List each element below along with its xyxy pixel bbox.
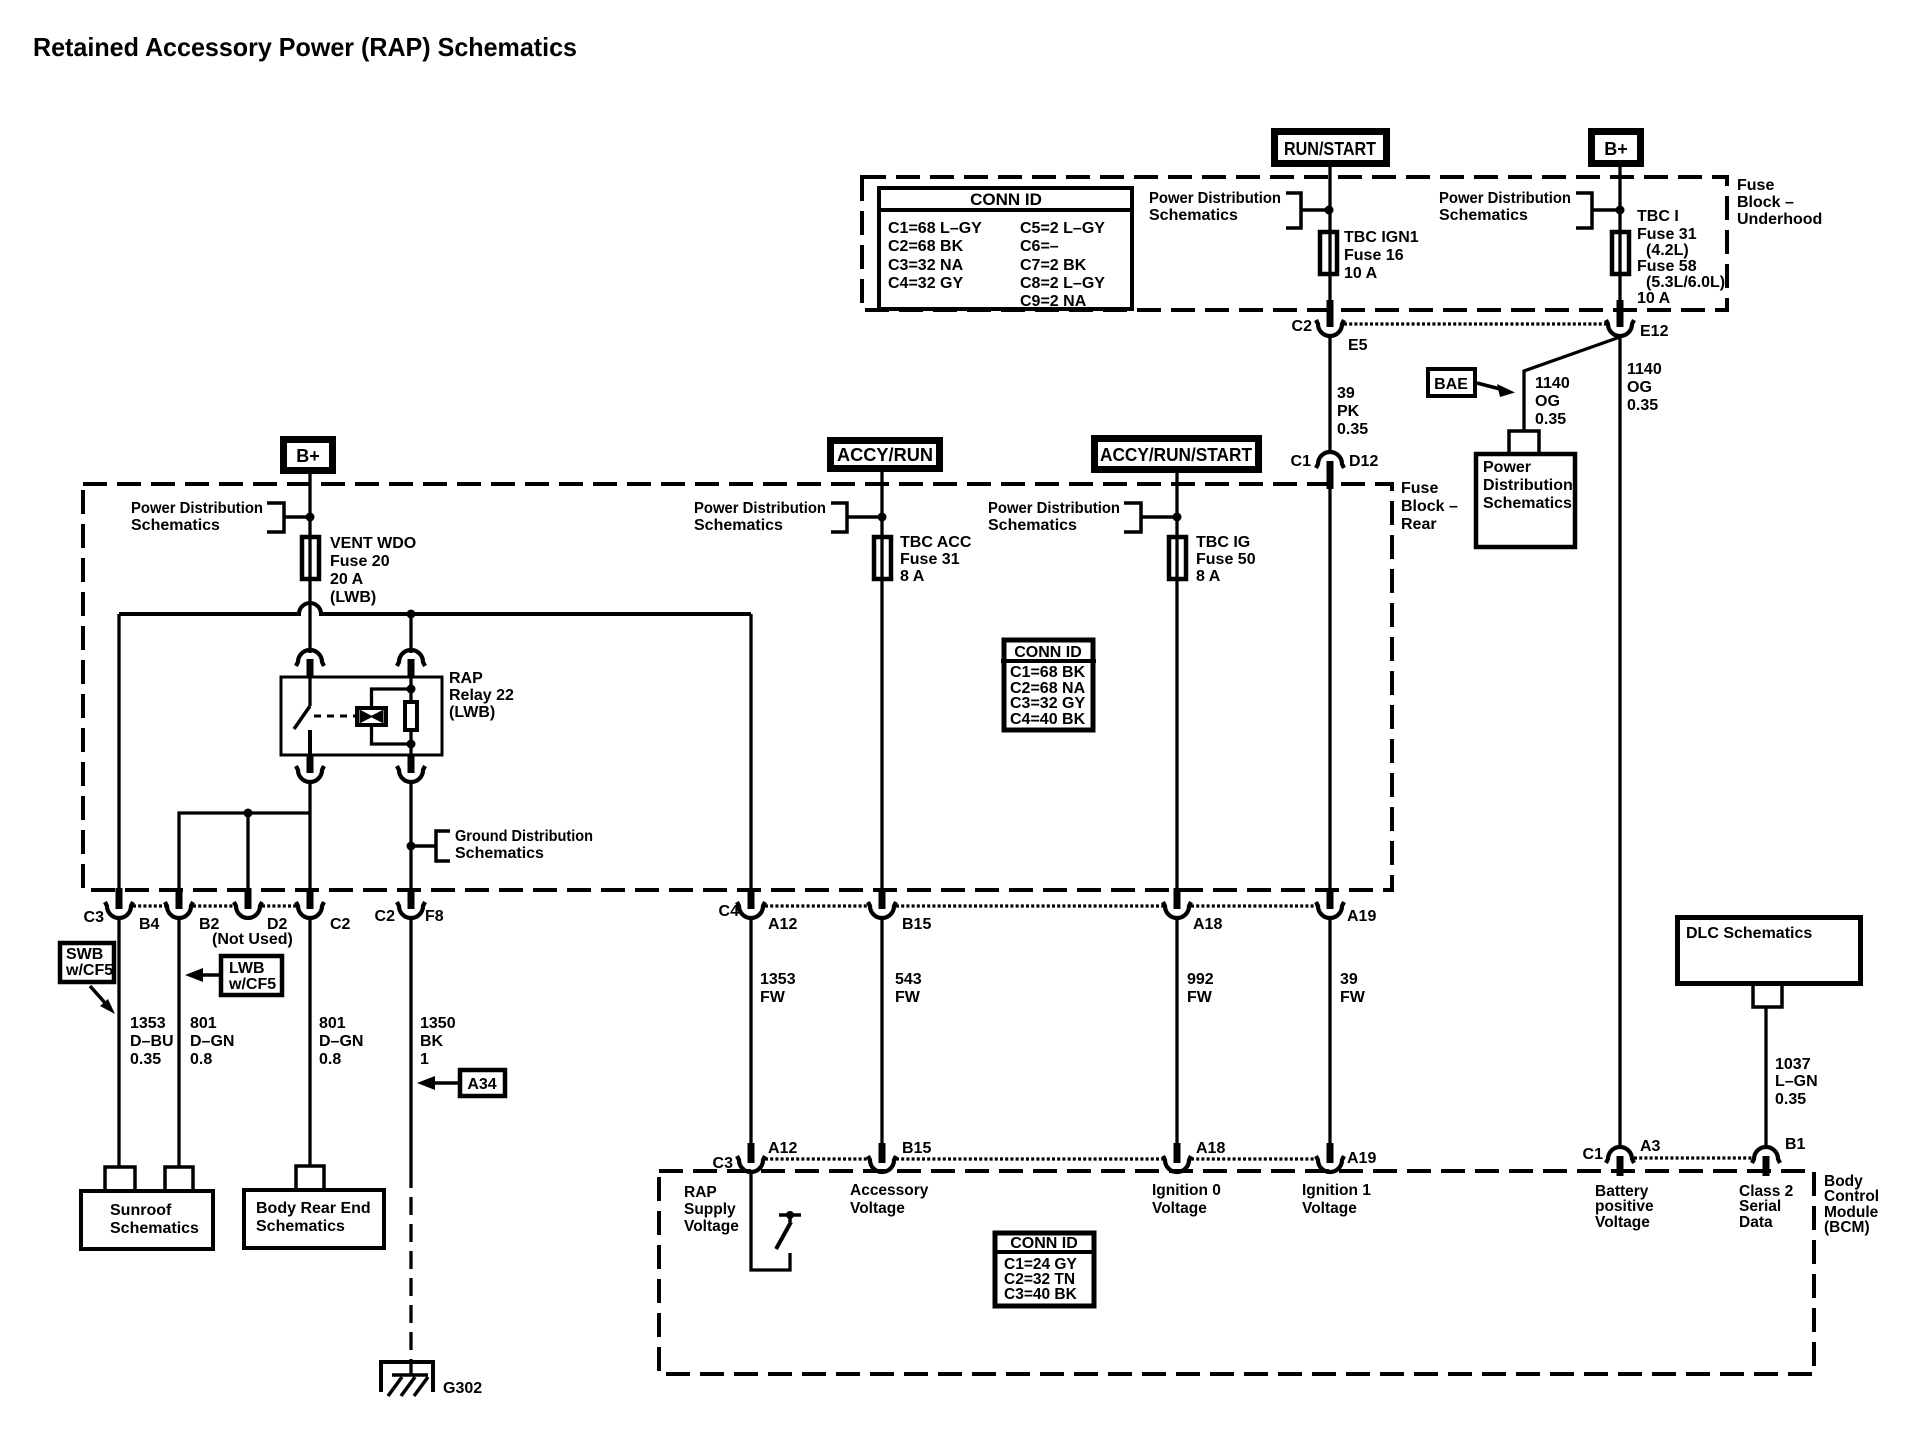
wire A18 down to BCM [1175,917,1178,1144]
node Class 2 Serial Data [1739,1183,1793,1231]
wire label 39 FW [1340,971,1366,1006]
svg-text:(BCM): (BCM) [1824,1219,1870,1236]
wire label 801 D-GN 0.8 (B2) [190,1015,234,1068]
connector A19 (BCM) [1316,1143,1376,1172]
svg-text:Fuse: Fuse [1737,177,1774,194]
svg-text:(4.2L): (4.2L) [1646,242,1689,259]
wire C2/F8 down (1350 BK) [409,917,412,1170]
wire E5 to C1 (39 PK) [1328,335,1331,453]
svg-text:Schematics: Schematics [110,1220,199,1237]
wire B+ down [308,474,311,537]
svg-text:Ignition 0: Ignition 0 [1152,1182,1221,1199]
svg-text:0.35: 0.35 [130,1051,161,1068]
relay actuation dashed link [314,715,355,718]
node Battery positive Voltage [1595,1183,1654,1231]
terminal B+ (underhood) [1592,132,1641,164]
connector C2/F8 [375,888,444,925]
dashed wire to G302 [409,1170,412,1362]
wire label 1140 OG 0.35 (right) [1627,361,1662,414]
terminal RUN/START [1275,132,1387,164]
fuse TBC I Fuse 31/58 [1612,208,1725,307]
svg-text:Schematics: Schematics [256,1218,345,1235]
svg-text:1140: 1140 [1627,361,1662,378]
CONN ID table (Fuse Block - Rear) [1001,640,1096,730]
svg-text:Schematics: Schematics [1149,207,1238,224]
wire C3/B4 down to Sunroof [117,917,120,1167]
connector B1 (BCM class 2) [1752,1136,1806,1176]
junction dot bus/relay coil [407,610,416,619]
svg-text:C2: C2 [330,916,351,933]
svg-text:Fuse: Fuse [1401,480,1438,497]
wire D12 down to A19 [1328,489,1331,891]
svg-text:C7=2 BK: C7=2 BK [1020,257,1087,274]
svg-text:Voltage: Voltage [1595,1214,1650,1231]
svg-text:Fuse 31: Fuse 31 [1637,226,1697,243]
wire label 992 FW [1187,971,1214,1006]
svg-text:RAP: RAP [449,670,483,687]
svg-text:Block –: Block – [1737,194,1794,211]
svg-text:A3: A3 [1640,1138,1661,1155]
svg-text:C2: C2 [1292,318,1313,335]
svg-text:C1=68 BK: C1=68 BK [1010,664,1086,681]
svg-text:TBC IGN1: TBC IGN1 [1344,229,1419,246]
svg-text:A19: A19 [1347,908,1376,925]
wire bus to relay coil pin [409,614,412,653]
svg-text:SWB: SWB [66,946,103,963]
wire B+ down [1618,165,1621,232]
relay pin connector (coil, bottom) [408,755,415,773]
svg-text:1350: 1350 [420,1015,456,1032]
wire label 1353 FW [760,971,796,1006]
fuse VENT WDO Fuse 20 [302,535,416,606]
svg-text:FW: FW [1187,989,1213,1006]
svg-text:8 A: 8 A [1196,568,1221,585]
Body Rear End Schematics box [244,1190,384,1248]
dotted connector line B15-A18 (BCM) [896,1157,1163,1160]
svg-text:D12: D12 [1349,453,1378,470]
node Ignition 0 Voltage [1152,1182,1221,1217]
connector C3/A12 (BCM) [713,1140,798,1172]
svg-text:ACCY/RUN: ACCY/RUN [837,445,933,465]
svg-text:PK: PK [1337,403,1360,420]
Power Distribution Schematics callout (B+ rear) [131,500,315,534]
svg-text:BAE: BAE [1434,376,1468,393]
dotted connector line A18-A19 [1191,904,1316,907]
svg-text:0.35: 0.35 [1535,411,1566,428]
relay pin connector (switch, bottom) [307,755,314,773]
connector D2 (Not Used) [212,888,293,948]
Sunroof Schematics box [81,1191,213,1249]
svg-text:FW: FW [1340,989,1366,1006]
svg-text:Voltage: Voltage [850,1200,905,1217]
svg-text:C3=40 BK: C3=40 BK [1004,1286,1078,1303]
svg-text:CONN ID: CONN ID [1010,1235,1078,1252]
svg-text:Rear: Rear [1401,516,1437,533]
wire ACCY/RUN down [880,468,883,537]
relay pin connector (coil, top) [397,650,425,666]
wire A19 down to BCM [1328,917,1331,1144]
svg-text:801: 801 [319,1015,346,1032]
svg-text:LWB: LWB [229,960,265,977]
RAP switch inside BCM [751,1172,801,1270]
svg-text:Power Distribution: Power Distribution [988,500,1120,517]
svg-text:Schematics: Schematics [988,517,1077,534]
svg-text:D–GN: D–GN [319,1033,363,1050]
svg-text:ACCY/RUN/START: ACCY/RUN/START [1100,445,1252,465]
svg-text:Body Rear End: Body Rear End [256,1200,371,1217]
svg-text:10 A: 10 A [1637,290,1671,307]
svg-text:B+: B+ [296,446,320,466]
svg-text:Voltage: Voltage [684,1218,739,1235]
relay pin connector (switch, top) [296,650,324,666]
svg-text:Block –: Block – [1401,498,1458,515]
svg-text:20 A: 20 A [330,571,364,588]
wire bus right down to C4/A12 [749,614,752,891]
svg-text:0.8: 0.8 [319,1051,341,1068]
svg-text:C3: C3 [84,909,105,926]
connector B15 [868,888,931,933]
svg-text:C1: C1 [1291,453,1312,470]
dotted connector line B4-B2 [133,904,165,907]
branch link to B2/D2 [179,813,310,891]
component tab (Sunroof pin 1) [105,1167,135,1189]
svg-text:A18: A18 [1196,1140,1225,1157]
wire DLC down to B1 [1764,1007,1767,1148]
Power Distribution Schematics callout (B+ underhood) [1439,190,1625,228]
svg-text:1353: 1353 [130,1015,166,1032]
SWB w/CF5 callout [60,943,115,1014]
wire label 543 FW [895,971,922,1006]
svg-text:C5=2 L–GY: C5=2 L–GY [1020,220,1105,237]
wire A12 down to BCM [749,917,752,1144]
svg-text:D–GN: D–GN [190,1033,234,1050]
svg-text:Underhood: Underhood [1737,211,1822,228]
svg-text:Power Distribution: Power Distribution [1439,190,1571,207]
svg-text:Fuse 31: Fuse 31 [900,551,960,568]
terminal ACCY/RUN/START [1095,439,1259,470]
connector B15 (BCM) [868,1140,931,1172]
svg-text:0.35: 0.35 [1627,397,1658,414]
wire VENT WDO down through hop to relay [308,581,311,653]
dotted connector line B2-D2 [193,904,234,907]
svg-text:C1=68 L–GY: C1=68 L–GY [888,220,982,237]
wire RUN/START down [1328,165,1331,232]
svg-text:DLC Schematics: DLC Schematics [1686,925,1812,942]
connector C3/B4 [84,888,160,933]
relay box [281,677,442,755]
relay resistor [409,677,412,702]
component tab to Power Distribution Schematics box [1509,431,1539,452]
svg-text:BK: BK [420,1033,444,1050]
svg-text:992: 992 [1187,971,1214,988]
bus line with hop over VENT WDO wire [119,603,751,614]
dotted connector line A18-A19 (BCM) [1191,1157,1316,1160]
component tab (DLC) [1753,986,1782,1007]
Ground Distribution Schematics callout [407,828,594,862]
svg-text:A18: A18 [1193,916,1222,933]
connector A18 (BCM) [1163,1140,1225,1172]
label Body Control Module (BCM) [1824,1173,1879,1236]
dotted connector line B15-A18 [896,904,1163,907]
svg-text:Sunroof: Sunroof [110,1202,172,1219]
component tab (Body Rear End) [296,1166,324,1188]
wire label 1037 L-GN 0.35 [1775,1056,1818,1108]
wire D2 [246,813,249,891]
svg-text:1037: 1037 [1775,1056,1811,1073]
svg-text:B15: B15 [902,916,931,933]
fuse TBC IG Fuse 50 [1169,534,1256,585]
svg-text:Retained Accessory Power (RAP): Retained Accessory Power (RAP) Schematic… [33,32,577,62]
label Fuse Block - Rear [1401,480,1458,533]
svg-text:TBC I: TBC I [1637,208,1679,225]
Fuse Block - Rear dashed box [83,484,1392,890]
connector C1/A3 (BCM battery) [1583,1138,1661,1176]
svg-text:Control: Control [1824,1188,1879,1205]
svg-text:Supply: Supply [684,1201,736,1218]
svg-text:0.35: 0.35 [1775,1091,1806,1108]
wire E12 down to BCM (1140 OG) [1618,335,1621,1148]
svg-text:A19: A19 [1347,1150,1376,1167]
svg-text:Voltage: Voltage [1302,1200,1357,1217]
svg-text:E5: E5 [1348,337,1368,354]
svg-text:(LWB): (LWB) [449,704,495,721]
wire relay coil out down to C2/F8 [409,781,412,891]
svg-text:A12: A12 [768,916,797,933]
wire TBC IG down to A18 [1175,581,1178,891]
svg-text:C8=2 L–GY: C8=2 L–GY [1020,275,1105,292]
svg-text:801: 801 [190,1015,217,1032]
wire bus left down to C3/B4 [117,614,120,891]
svg-text:C1: C1 [1583,1146,1604,1163]
component tab (Sunroof pin 2) [165,1167,193,1189]
svg-text:Ground Distribution: Ground Distribution [455,828,593,845]
BCM dashed box [659,1171,1814,1374]
svg-text:RUN/START: RUN/START [1284,139,1376,159]
branch wire to Power Distribution Schematics [1524,337,1620,431]
connector A18 [1163,888,1222,933]
svg-text:Fuse 20: Fuse 20 [330,553,390,570]
svg-text:C4=40 BK: C4=40 BK [1010,711,1086,728]
svg-text:(5.3L/6.0L): (5.3L/6.0L) [1646,274,1725,291]
connector E12 [1606,300,1669,340]
svg-text:Serial: Serial [1739,1198,1781,1215]
LWB w/CF5 callout [185,956,282,995]
svg-text:Power: Power [1483,459,1531,476]
svg-text:TBC IG: TBC IG [1196,534,1250,551]
svg-text:Power Distribution: Power Distribution [131,500,263,517]
svg-text:Accessory: Accessory [850,1182,929,1199]
ground G302 [381,1362,482,1397]
Power Distribution Schematics box [1476,454,1575,547]
svg-text:FW: FW [760,989,786,1006]
svg-text:OG: OG [1627,379,1652,396]
connector C1 / D12 [1291,452,1379,489]
svg-text:E12: E12 [1640,323,1669,340]
svg-text:Voltage: Voltage [1152,1200,1207,1217]
svg-text:A12: A12 [768,1140,797,1157]
svg-text:B+: B+ [1604,139,1628,159]
BAE callout box with arrow [1428,369,1515,397]
svg-text:Fuse 58: Fuse 58 [1637,258,1697,275]
relay coil (solid state) [357,708,386,725]
connector C2 / E5 [1292,300,1368,354]
wire C2 down to Body Rear End [308,917,311,1166]
svg-text:positive: positive [1595,1198,1654,1215]
svg-text:OG: OG [1535,393,1560,410]
svg-text:0.8: 0.8 [190,1051,212,1068]
svg-text:Relay 22: Relay 22 [449,687,514,704]
svg-text:10 A: 10 A [1344,265,1378,282]
svg-text:C6=–: C6=– [1020,238,1059,255]
node Accessory Voltage [850,1182,929,1217]
svg-text:(Not Used): (Not Used) [212,931,293,948]
svg-text:FW: FW [895,989,921,1006]
dotted connector line A12-B15 (BCM) [765,1157,868,1160]
svg-text:C3=32 NA: C3=32 NA [888,257,964,274]
svg-text:Schematics: Schematics [455,845,544,862]
svg-text:C2: C2 [375,908,396,925]
svg-text:Power Distribution: Power Distribution [694,500,826,517]
svg-text:0.35: 0.35 [1337,421,1368,438]
Power Distribution Schematics callout (ACCY/RUN/START) [988,500,1182,534]
svg-text:C4: C4 [719,903,740,920]
svg-text:L–GN: L–GN [1775,1073,1818,1090]
wire label 1350 BK 1 [420,1015,456,1068]
label Fuse Block - Underhood [1737,177,1822,228]
fuse TBC IGN1 Fuse 16 [1320,229,1419,302]
wire B15 down to BCM [880,917,883,1144]
svg-text:C4=32 GY: C4=32 GY [888,275,963,292]
dotted connector line D2-C2 [262,904,296,907]
relay switch [308,677,311,706]
wire TBC ACC down to B15 [880,581,883,891]
svg-text:Power Distribution: Power Distribution [1149,190,1281,207]
connector C4/A12 [719,888,798,933]
svg-text:543: 543 [895,971,922,988]
svg-text:G302: G302 [443,1380,482,1397]
svg-text:B1: B1 [1785,1136,1806,1153]
terminal B+ (rear) [284,440,333,471]
svg-text:C3=32 GY: C3=32 GY [1010,695,1085,712]
svg-text:C9=2 NA: C9=2 NA [1020,293,1087,310]
svg-text:TBC ACC: TBC ACC [900,534,972,551]
svg-text:VENT WDO: VENT WDO [330,535,416,552]
svg-text:1140: 1140 [1535,375,1570,392]
svg-text:F8: F8 [425,908,444,925]
wire relay switch out down to C2 [308,781,311,891]
svg-text:RAP: RAP [684,1184,717,1201]
connector C2 (switch out) [296,888,351,933]
CONN ID table (BCM) [993,1233,1096,1306]
node Ignition 1 Voltage [1302,1182,1371,1217]
svg-text:1: 1 [420,1051,429,1068]
svg-text:w/CF5: w/CF5 [228,976,276,993]
wire label 1140 OG 0.35 (branch) [1535,375,1570,428]
svg-text:C3: C3 [713,1155,734,1172]
svg-text:Schematics: Schematics [1483,495,1572,512]
svg-text:Distribution: Distribution [1483,477,1573,494]
svg-text:CONN ID: CONN ID [970,190,1042,209]
svg-text:39: 39 [1340,971,1358,988]
terminal ACCY/RUN [831,441,940,469]
svg-text:Ignition 1: Ignition 1 [1302,1182,1371,1199]
Power Distribution Schematics callout (ACCY/RUN) [694,500,887,534]
Power Distribution Schematics callout (RUN/START) [1149,190,1334,228]
svg-text:Data: Data [1739,1214,1773,1231]
svg-text:CONN ID: CONN ID [1014,644,1082,661]
relay RAP Relay 22 [281,650,514,782]
svg-text:C2=68 BK: C2=68 BK [888,238,964,255]
svg-text:A34: A34 [467,1076,496,1093]
svg-text:1353: 1353 [760,971,796,988]
dotted connector line A3-B1 [1634,1156,1752,1159]
svg-text:B4: B4 [139,916,160,933]
svg-text:Schematics: Schematics [694,517,783,534]
dotted connector line C2-E12 [1344,322,1606,325]
svg-text:Fuse 16: Fuse 16 [1344,247,1404,264]
Fuse Block - Underhood dashed box [862,177,1727,310]
svg-text:B15: B15 [902,1140,931,1157]
connector A19 [1316,888,1376,925]
CONN ID table (Fuse Block - Underhood) [877,188,1134,310]
wire label 1353 D-BU 0.35 [130,1015,174,1068]
wire B2 down to Sunroof [177,917,180,1167]
DLC Schematics box [1678,918,1861,984]
svg-text:8 A: 8 A [900,568,925,585]
svg-text:Schematics: Schematics [1439,207,1528,224]
connector B2 [165,888,220,933]
svg-text:Schematics: Schematics [131,517,220,534]
svg-text:(LWB): (LWB) [330,589,376,606]
wire ACCY/RUN/START down [1175,469,1178,537]
svg-text:D–BU: D–BU [130,1033,174,1050]
node RAP Supply Voltage [684,1184,739,1235]
wire label 801 D-GN 0.8 (C2) [319,1015,363,1068]
dotted connector line A12-B15 [765,904,868,907]
wire label 39 PK 0.35 [1337,385,1368,438]
svg-text:w/CF5: w/CF5 [65,962,113,979]
fuse TBC ACC Fuse 31 [874,534,972,585]
svg-text:39: 39 [1337,385,1355,402]
A34 callout with arrow [417,1070,505,1096]
svg-text:Fuse 50: Fuse 50 [1196,551,1256,568]
